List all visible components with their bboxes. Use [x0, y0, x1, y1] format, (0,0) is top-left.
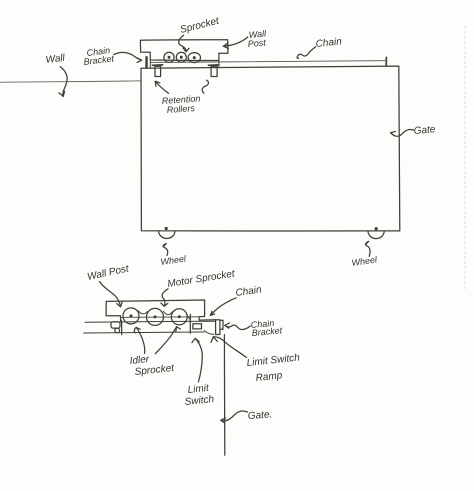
svg-text:Wall: Wall	[45, 53, 66, 66]
svg-text:Post: Post	[247, 37, 266, 49]
svg-text:Limit Switch: Limit Switch	[246, 352, 301, 369]
svg-text:Sprocket: Sprocket	[179, 15, 221, 36]
svg-text:Rollers: Rollers	[166, 103, 195, 115]
svg-text:Chain: Chain	[235, 284, 263, 299]
svg-text:Ramp: Ramp	[255, 370, 283, 384]
svg-text:Motor Sprocket: Motor Sprocket	[167, 268, 237, 290]
svg-text:Wall Post: Wall Post	[86, 263, 131, 283]
svg-text:Bracket: Bracket	[251, 325, 283, 338]
svg-text:Gate.: Gate.	[247, 409, 272, 422]
svg-text:Chain: Chain	[315, 36, 343, 50]
svg-text:Gate: Gate	[413, 124, 436, 137]
svg-text:Wheel: Wheel	[160, 253, 188, 267]
svg-text:Wheel: Wheel	[351, 254, 379, 268]
svg-text:Switch: Switch	[184, 394, 215, 408]
